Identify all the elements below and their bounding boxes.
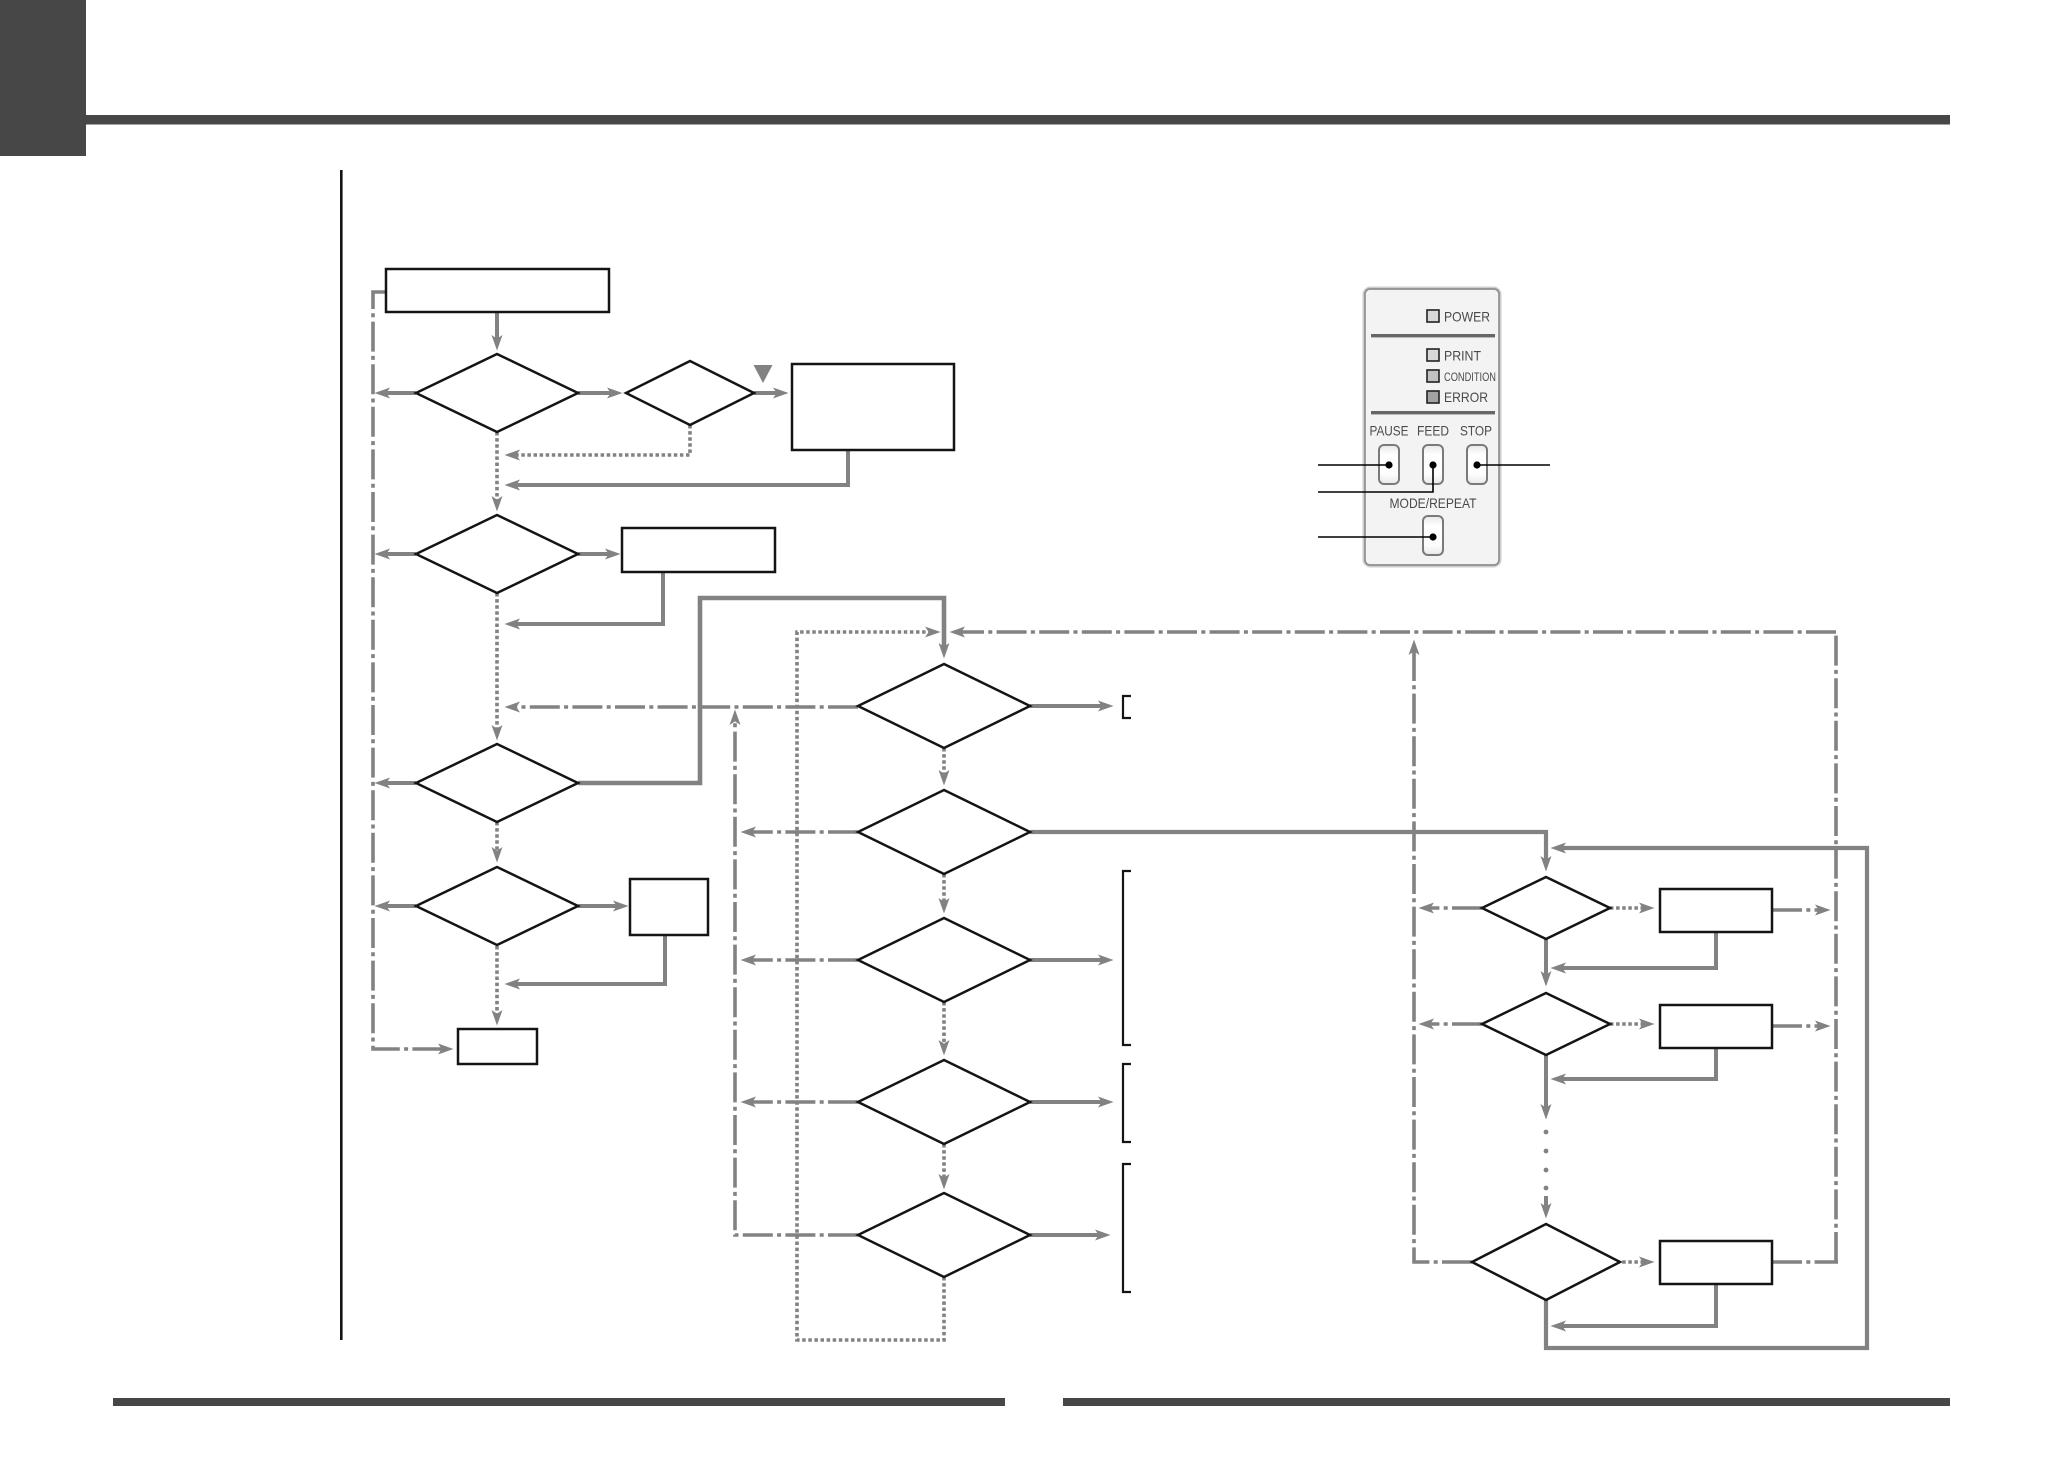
svg-text:FEED: FEED — [1417, 423, 1449, 439]
svg-text:POWER: POWER — [1444, 309, 1490, 325]
svg-text:PAUSE: PAUSE — [1370, 423, 1409, 439]
svg-text:PRINT: PRINT — [1444, 348, 1481, 364]
svg-text:MODE/REPEAT: MODE/REPEAT — [1390, 495, 1477, 511]
svg-text:ERROR: ERROR — [1444, 389, 1488, 405]
svg-text:STOP: STOP — [1460, 423, 1492, 439]
svg-text:CONDITION: CONDITION — [1444, 370, 1496, 384]
